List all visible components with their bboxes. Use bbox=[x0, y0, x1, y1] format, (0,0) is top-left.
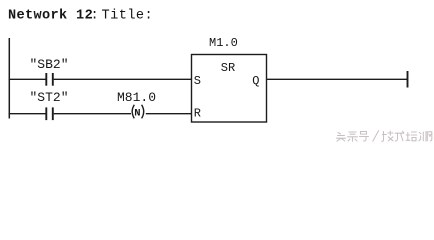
output terminal end tick bbox=[407, 71, 409, 88]
wire: rung 1 from SB2 to S input of SR box bbox=[54, 78, 192, 80]
coil M81.0 negative edge (N) with value label M81.0 bbox=[117, 90, 156, 120]
svg-text:Q: Q bbox=[252, 74, 259, 88]
svg-text:SR: SR bbox=[221, 61, 235, 75]
wire: rung 2 from ST2 to coil M81.0 bbox=[54, 113, 131, 115]
svg-text:"ST2": "ST2" bbox=[30, 90, 69, 105]
svg-text::: : bbox=[91, 9, 99, 24]
watermark "头条号 / 技成培训网" (faint embossed gray, drawn as strokes) bbox=[337, 131, 432, 142]
SR flip-flop box U1 bbox=[192, 55, 267, 123]
svg-text:N: N bbox=[134, 108, 140, 120]
wire: rung 2 from coil to R input of SR box bbox=[146, 113, 192, 115]
left power rail bbox=[8, 38, 10, 119]
wire: Q output to right terminal bbox=[267, 78, 408, 80]
wire: rung 2 from rail to contact ST2 bbox=[9, 113, 46, 115]
svg-text:R: R bbox=[194, 107, 201, 121]
svg-text:M81.0: M81.0 bbox=[117, 90, 156, 105]
svg-text:M1.0: M1.0 bbox=[209, 36, 238, 50]
svg-text:S: S bbox=[194, 74, 201, 88]
svg-text:Network 12: Network 12 bbox=[8, 9, 93, 24]
network title "Network 12 : Title:" bbox=[8, 9, 153, 24]
contact SB2 (normally open) with label "SB2" bbox=[30, 57, 69, 86]
svg-text:Title:: Title: bbox=[102, 9, 154, 24]
svg-text:"SB2": "SB2" bbox=[30, 57, 69, 72]
wire: rung 1 from rail to contact SB2 bbox=[9, 78, 46, 80]
contact ST2 (normally open) with label "ST2" bbox=[30, 90, 69, 120]
